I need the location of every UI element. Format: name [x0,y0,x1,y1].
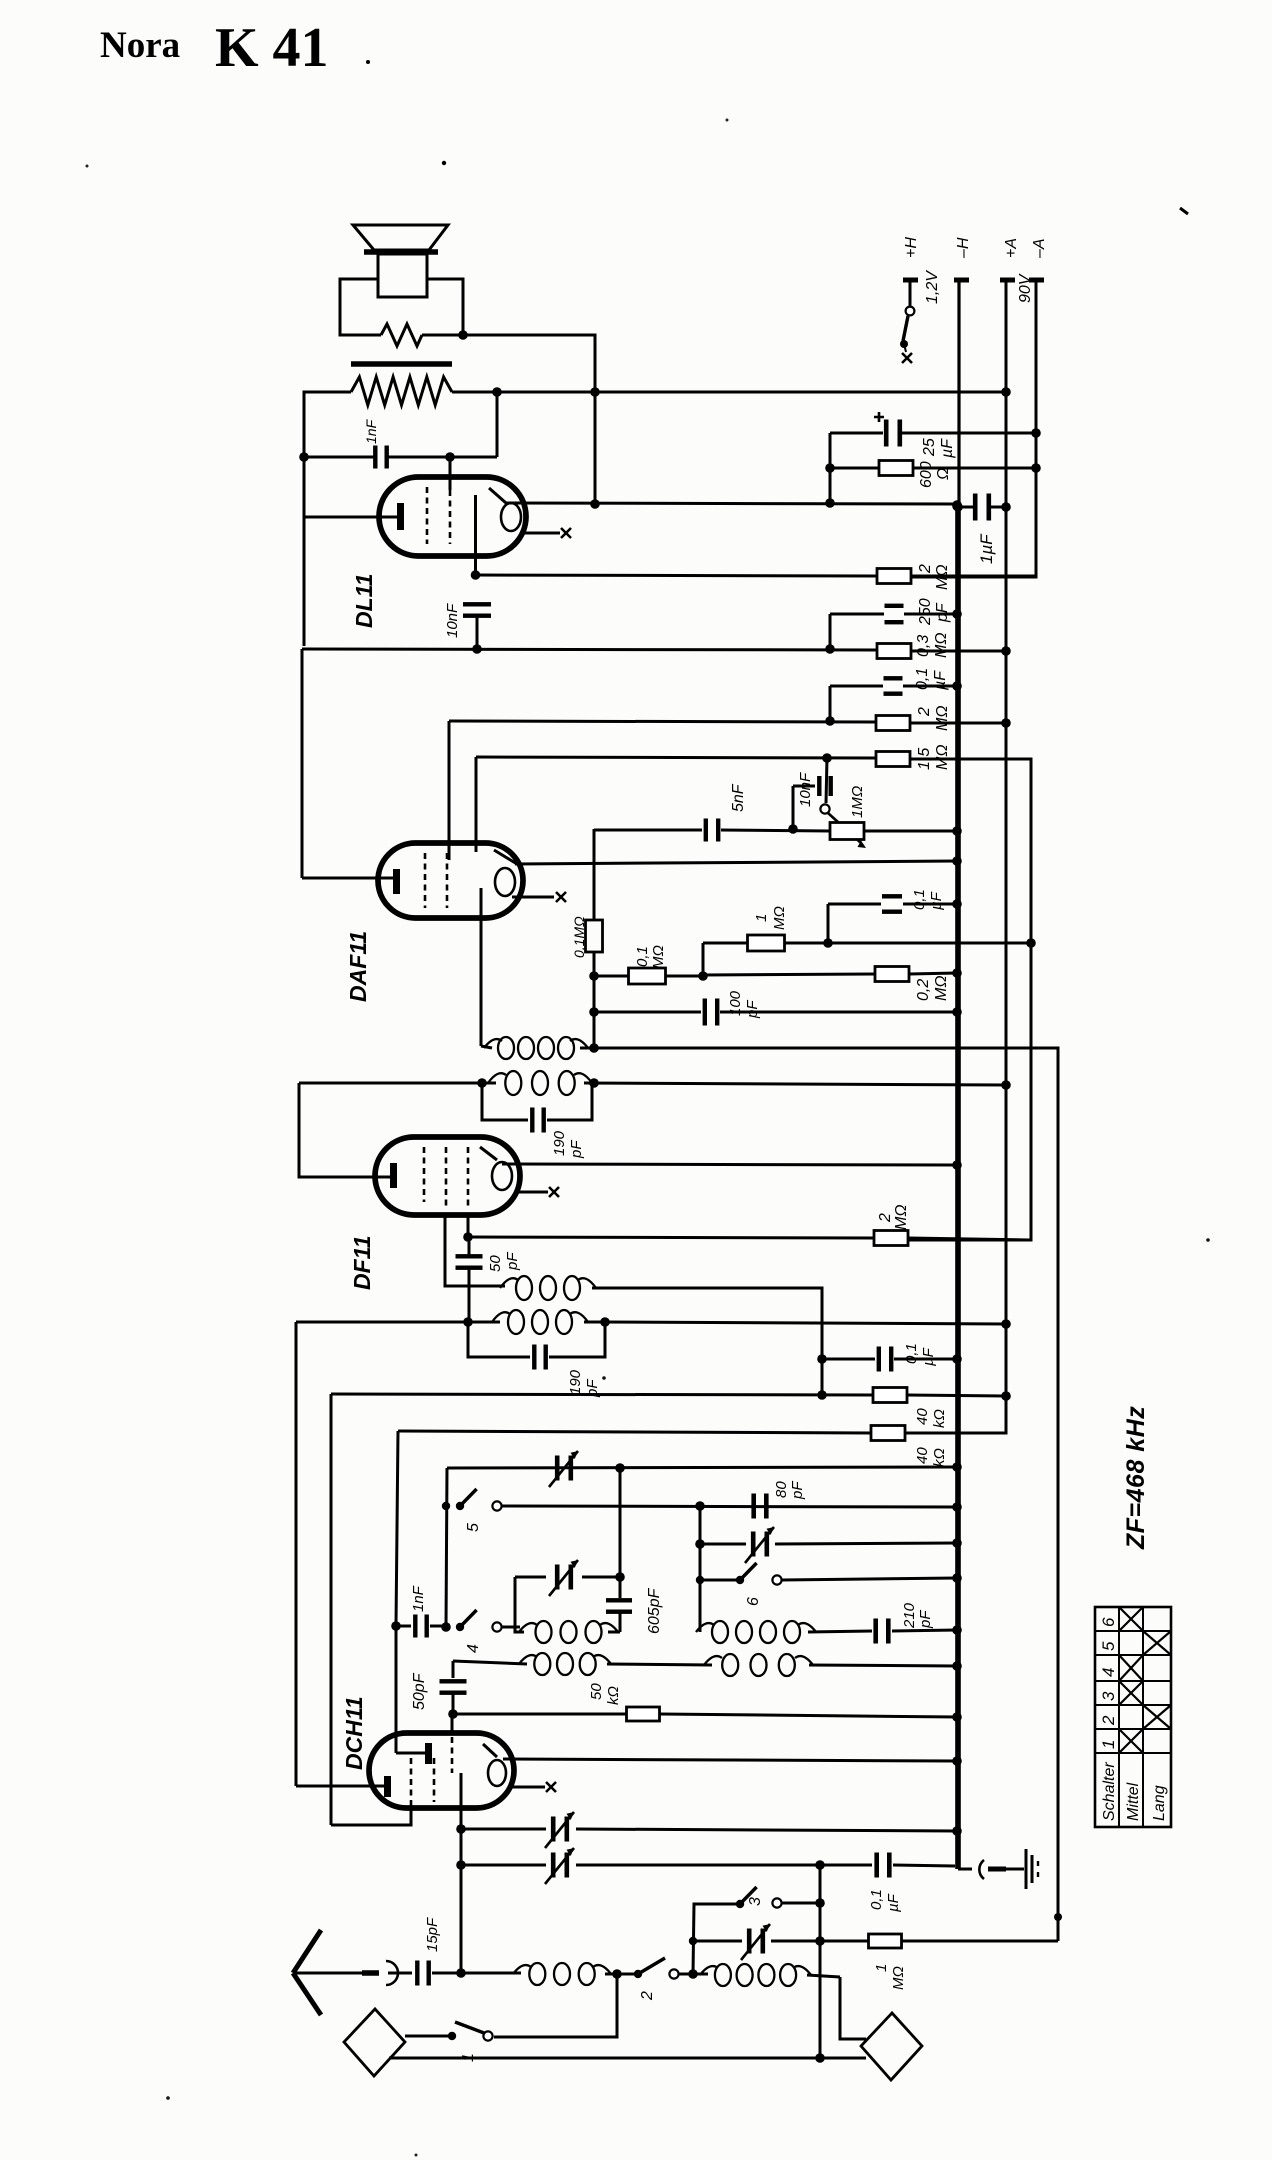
terminal -A [1029,238,1048,280]
svg-text:Nora: Nora [100,25,180,66]
tube DL11 x lead [521,528,571,538]
label 50k [588,1683,622,1705]
label 50pF osc [411,1672,428,1710]
label 0,1uF b [911,889,945,910]
label switch 2 [639,1991,656,2001]
capacitor 190pF b [468,1322,605,1370]
coil coupling left [453,1653,712,1675]
wire DAF11 diode row [476,753,876,763]
tube DAF11 filament [494,850,517,896]
label 210pF [901,1602,934,1629]
capacitor 100pF [594,999,957,1026]
tube DF11 grids [424,1147,468,1208]
svg-text:kΩ: kΩ [931,1409,948,1428]
rail -H bus [958,282,959,1869]
node switch3 right [815,1898,825,1908]
node 0,3M at +A [1001,646,1011,656]
label switch 3 [747,1897,764,1906]
tube DCH11 grids [411,1737,452,1806]
resistor speaker voice coil [381,324,422,346]
label 10nF avc [797,772,814,807]
node gang top at bus [952,1462,962,1472]
label 5nF [730,783,747,812]
svg-text:+H: +H [903,237,920,258]
capacitor 25uF [830,412,1036,447]
svg-text:MΩ: MΩ [933,976,950,1002]
wire switch3 column [693,1904,740,1974]
svg-text:Mittel: Mittel [1125,1782,1142,1821]
node speaker right / wire to +A drop [422,330,595,504]
label 90V [1017,273,1034,303]
resistor 0,1M horizontal [594,968,703,984]
potentiometer 1M body [830,823,864,840]
switch 4 [456,1610,520,1632]
tube DCH11 triode grid [396,1743,432,1764]
label 250pF [917,598,951,626]
node osc anode row a [456,1824,466,1834]
terminal +A [1000,238,1020,280]
capacitor padder [689,1924,820,1960]
svg-text:250: 250 [917,598,934,626]
node 1nF osc right [441,1622,451,1632]
switch 6 [696,1563,957,1585]
resistor 2M c [874,1231,1029,1246]
wire transformer right to +A rail [452,387,1011,397]
tube DL11 envelope [379,477,526,556]
node vcapB right [615,1572,625,1582]
switch table [1095,1607,1171,1827]
wire DF11 grid pin [299,1083,393,1177]
label 600 ohm [918,461,952,488]
capacitor 50pF osc [440,1661,467,1714]
tube DCH11 anode lead [460,1773,463,1973]
coil osc tank A [515,1621,618,1643]
node 40k a at +A rail [1001,1391,1011,1401]
svg-text:–A: –A [1031,238,1048,259]
label 190pF b [567,1369,601,1398]
capacitor 250pF [830,604,957,649]
resistor 600 ohm [830,461,1036,476]
output transformer core [351,361,452,367]
resistor 1M ant [820,1934,1058,1948]
wire DF11 grid row [468,1237,874,1238]
wire transformer left to node [304,392,351,646]
node 0,1uF c left [817,1354,827,1364]
speaker [353,225,448,297]
node 0,2M at bus [952,968,962,978]
svg-text:0,3: 0,3 [915,635,932,657]
node DF11 grid bottom [463,1232,473,1242]
capacitor trimmer b [461,1848,872,1884]
wire DAF11 top-grid row [515,856,962,866]
svg-text:pF: pF [568,1140,585,1159]
svg-text:kΩ: kΩ [605,1686,622,1705]
svg-text:MΩ: MΩ [771,906,788,930]
tube DL11 control grid [449,490,452,544]
wire diode coil to right column [594,1048,1058,1941]
svg-text:1nF: 1nF [410,1585,427,1612]
tube DAF11 diode lead [480,888,483,1046]
label 25uF [921,438,956,459]
coil IF2 secondary [299,1071,1006,1095]
resistor 50k [453,1707,957,1721]
wire DL11 plate row [505,498,962,510]
wire DL11 grid-leak row [302,644,877,654]
capacitor 1nF [304,446,497,469]
svg-text:MΩ: MΩ [893,1205,910,1231]
tube DF11 filament [480,1147,512,1190]
tube DAF11 anode plate [393,869,400,894]
svg-text:4: 4 [1099,1668,1118,1677]
capacitor variable osc C [700,1527,957,1563]
coil osc L2 [693,1964,840,1986]
label 1M ant [873,1964,907,1990]
svg-text:ZF=468 kHz: ZF=468 kHz [1122,1406,1150,1550]
svg-text:µF: µF [885,1893,902,1912]
label 1M pot [849,786,866,818]
svg-text:10nF: 10nF [444,603,461,638]
svg-text:50pF: 50pF [411,1672,428,1710]
capacitor 80pF [751,1494,768,1519]
label 2M c [877,1205,910,1231]
svg-text:µF: µF [920,1347,937,1366]
node DL11 bottom junction [471,570,481,580]
svg-text:1µF: 1µF [977,533,996,564]
wire right column antenna [815,1860,825,2057]
svg-text:µF: µF [928,891,945,910]
svg-text:kΩ: kΩ [931,1448,948,1467]
svg-text:pF: pF [917,1610,934,1629]
wire vcapB drop [514,1577,517,1627]
node 210pF at bus [952,1625,962,1635]
bus junction dots [952,501,962,511]
svg-text:50: 50 [588,1683,605,1700]
svg-text:6: 6 [1099,1617,1118,1627]
output transformer primary winding [351,377,452,405]
wire left rail b [330,1394,333,1825]
label DL11 [351,573,377,628]
tube DAF11 envelope [378,843,523,918]
ground plate right [861,2013,922,2080]
node antenna junction [456,1968,466,1978]
wire 1,5M to wiper [826,758,827,803]
antenna plug [362,1961,412,1985]
svg-text:MΩ: MΩ [934,745,951,771]
svg-text:5: 5 [465,1523,482,1532]
label 1M avc [753,906,788,930]
ground plate left [344,2009,405,2076]
label 10nF [444,603,461,638]
svg-text:DAF11: DAF11 [345,931,371,1002]
wire gang frame [446,1468,447,1627]
wire DCH11 triode grid lead [395,1626,398,1753]
wire 25uF left drop [825,433,835,503]
svg-text:0,2: 0,2 [915,979,932,1001]
tube DL11 cathode lead [474,495,477,573]
label 0,1uF c [903,1343,937,1366]
coil IF3 secondary [296,1310,605,1334]
node 0,1uF c at bus [952,1354,962,1364]
switch 2 [634,1958,694,1979]
node 10nF bottom [472,644,482,654]
svg-text:DF11: DF11 [349,1235,375,1290]
wire switch6 column [699,1506,702,1632]
node 1nF osc left [391,1621,401,1631]
svg-text:pF: pF [744,1000,761,1019]
svg-text:50: 50 [487,1255,504,1272]
node 100pF at bus [952,1007,962,1017]
svg-text:1,2V: 1,2V [924,270,941,304]
wire DAF11 left pin [302,649,396,878]
wire L2 to counterpoise [840,1977,866,2039]
node DL11 grid lead [445,452,455,490]
switch 5 [442,1489,957,1511]
tube DF11 anode plate [390,1163,397,1188]
svg-text:K 41: K 41 [215,17,329,79]
svg-text:0,1: 0,1 [868,1889,885,1910]
terminal -H [954,237,972,280]
junction dots on +A drop [590,387,600,509]
label DCH11 [341,1696,367,1770]
wire DCH11 plate row [503,1756,962,1766]
node detector b [698,971,708,981]
label 1uF [977,533,996,564]
svg-text:2: 2 [916,707,933,717]
label 0,1M horiz [634,945,667,969]
svg-text:–H: –H [955,237,972,259]
node vcapC left [695,1539,705,1549]
svg-text:MΩ: MΩ [890,1966,907,1990]
svg-text:100: 100 [727,990,744,1016]
svg-text:40: 40 [914,1408,931,1425]
coil osc tank B [696,1621,816,1643]
resistor 0,1M vertical [586,829,603,1048]
svg-text:1,5: 1,5 [916,748,933,770]
tube DF11 g2 bottom lead [445,1213,505,1286]
svg-text:5nF: 5nF [730,783,747,812]
resistor 1M avc [703,935,785,976]
node vcapC at bus [952,1538,962,1548]
switch power 1,2V [900,282,914,363]
wire grid node drop [496,392,499,457]
resistor 1,5M [876,752,1031,1241]
label switch 1 [460,2053,477,2062]
capacitor 210pF [808,1619,957,1644]
label 40k b [914,1447,948,1467]
wire tank A right [608,1631,620,1634]
svg-text:1: 1 [1099,1740,1118,1749]
label 1nF osc [410,1585,427,1612]
capacitor 5nF [704,819,830,842]
tube DCH11 left pin plate [384,1776,391,1797]
svg-text:2: 2 [639,1991,656,2001]
wire bottom rail [389,2053,866,2063]
label 15pF [424,1917,441,1952]
tube DCH11 filament [483,1744,506,1786]
label 2M b [916,706,951,732]
node gang at bus b [952,1502,962,1512]
switch 1 [405,1974,617,2041]
capacitor 10nF [463,602,491,649]
svg-text:2: 2 [917,564,934,574]
label 100pF [727,990,761,1019]
svg-text:pF: pF [934,602,951,623]
node 40k a left [817,1390,827,1400]
label switch 6 [745,1597,762,1606]
wire avc row [785,938,1031,948]
label DF11 [349,1235,375,1290]
svg-text:MΩ: MΩ [934,565,951,591]
wire gang top row [447,1467,957,1468]
title Nora K 41 [100,17,1188,214]
tube DAF11 x lead [512,892,566,902]
capacitor 605pF [606,1598,632,1632]
label 1nF [363,418,379,444]
capacitor variable osc B [515,1560,620,1596]
svg-text:MΩ: MΩ [650,945,667,969]
capacitor 10nF avc [793,776,833,829]
terminal +H [903,237,920,280]
node osc mixer junction [688,1969,698,1979]
svg-text:MΩ: MΩ [933,633,950,659]
wire gang mid drop [619,1468,622,1598]
label switch 5 [465,1523,482,1532]
tube DAF11 grids [425,853,447,908]
wire DAF11 grid row [449,716,876,726]
svg-text:1MΩ: 1MΩ [849,786,866,818]
label DAF11 [345,931,371,1002]
svg-text:0,1: 0,1 [911,889,928,910]
wire IF3 to -A rail [605,1319,1011,1329]
node 250pF at bus [952,609,962,619]
svg-text:25: 25 [921,438,938,457]
node blob on column [1054,1913,1062,1921]
tube DL11 filament [489,488,521,531]
label 0,1M vert [571,916,587,958]
node L1 right [605,1969,638,1979]
svg-text:210: 210 [901,1602,918,1629]
svg-text:Schalter: Schalter [1101,1762,1118,1821]
capacitor 15pF [415,1961,461,1986]
tube DF11 g1 bottom lead [467,1213,470,1237]
label 1,5M [916,745,951,771]
node 1uF left [953,502,963,512]
capacitor 50pF df11 [456,1241,483,1322]
label 1,2V [924,270,941,304]
svg-text:pF: pF [504,1252,521,1271]
label 605pF [646,1587,663,1634]
wire DF11 plate row [502,1160,962,1170]
capacitor variable osc A [549,1451,578,1487]
node 0,1uF a at bus [952,681,962,691]
node 50pF osc bottom [448,1709,458,1719]
svg-text:0,1: 0,1 [903,1343,920,1364]
svg-text:0,1: 0,1 [634,946,651,967]
svg-text:pF: pF [789,1481,806,1500]
node padder right [815,1936,825,1946]
node IF2 at -A rail [1001,1080,1011,1090]
node switch6 at bus [952,1573,962,1583]
svg-text:MΩ: MΩ [934,706,951,732]
tube DL11 anode plate [397,503,404,530]
resistor 40k a [331,1388,1006,1403]
capacitor 0,1uF a [830,676,957,721]
svg-text:µF: µF [932,670,949,691]
svg-text:10nF: 10nF [797,772,814,807]
wire speaker to voice-coil resistor [340,279,463,335]
tube DF11 x lead [516,1187,559,1197]
label 2M a [917,564,951,590]
node switch5 row [695,1501,705,1511]
node 1,5M branch [1026,938,1036,948]
coil IF3 primary [500,1276,822,1395]
tube DL11 grids [426,487,429,544]
capacitor trimmer a [461,1812,957,1848]
capacitor 0,1uF c [822,1347,957,1372]
node transformer-left / 1nF row dot [299,452,309,462]
svg-text:6: 6 [745,1597,762,1606]
wire pot right [864,826,962,836]
capacitor 0,1uF d [874,1853,955,1878]
svg-text:605pF: 605pF [646,1587,663,1634]
node IF3 sec left [463,1317,473,1327]
node diode coil right [589,1043,599,1053]
label 40k a [914,1408,948,1428]
label switch 4 [465,1644,482,1653]
svg-text:2: 2 [1099,1715,1118,1726]
svg-text:5: 5 [1099,1641,1118,1651]
node 0,1uF b at bus [952,899,962,909]
capacitor 1nF osc [396,1615,446,1638]
wire DCH11 left pin [296,1785,384,1788]
wire 40k b to 1nF [396,1431,398,1625]
coil antenna L1 [461,1963,611,1985]
resistor 2M output grid [877,569,1036,584]
node coupling at bus [952,1661,962,1671]
resistor 0,3M [877,644,1006,659]
rail +A [1005,282,1008,1432]
capacitor 1uF [961,494,1004,521]
coil IF diode winding [481,1037,594,1059]
label 80pF [773,1481,806,1500]
wire DCH11 g lead [451,1714,454,1735]
svg-text:80: 80 [773,1481,790,1498]
svg-text:1nF: 1nF [363,418,379,444]
label ZF=468kHz [1122,1406,1150,1550]
tube DCH11 g2 bottom lead [331,1806,411,1825]
svg-text:µF: µF [939,438,956,459]
svg-text:Ω: Ω [935,468,952,480]
tube DCH11 envelope [369,1733,514,1808]
resistor 2M b [876,716,1006,731]
svg-text:1: 1 [753,914,770,922]
label 0,2M [915,976,950,1002]
tube DF11 envelope [375,1137,520,1215]
node 50k at bus [952,1712,962,1722]
label 50pF df11 [487,1252,521,1272]
label 0,3M [915,633,950,659]
svg-text:40: 40 [914,1447,931,1464]
svg-text:Lang: Lang [1151,1785,1168,1821]
node 600ohm at -A [1031,463,1041,473]
svg-text:4: 4 [465,1644,482,1653]
tube DCH11 x lead [512,1782,556,1792]
svg-text:0,1MΩ: 0,1MΩ [571,916,587,958]
label 190pF a [551,1130,585,1159]
node IF2 left [477,1078,487,1088]
node 1uF right [1001,502,1011,512]
node IF3 sec right [600,1317,610,1327]
